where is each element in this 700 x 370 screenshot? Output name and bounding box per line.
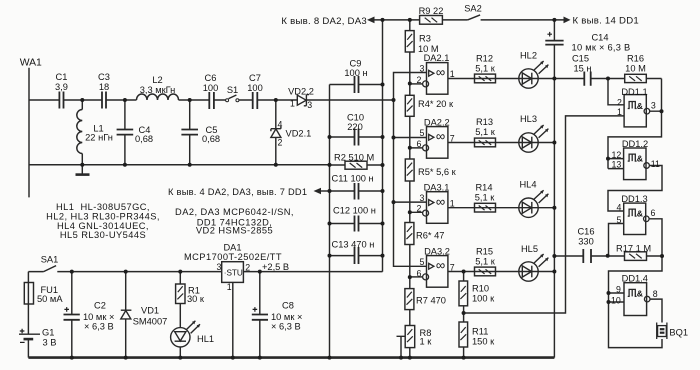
svg-text:8: 8: [653, 289, 658, 299]
svg-text:L2: L2: [152, 75, 162, 85]
svg-text:К выв. 8 DA2, DA3: К выв. 8 DA2, DA3: [281, 16, 367, 27]
svg-text:R4* 20 к: R4* 20 к: [418, 99, 454, 109]
svg-text:1 к: 1 к: [420, 336, 433, 346]
svg-text:18: 18: [99, 82, 109, 92]
svg-text:DD1.1: DD1.1: [621, 87, 647, 97]
svg-text:R7 470: R7 470: [416, 295, 446, 305]
svg-text:3: 3: [420, 193, 425, 203]
svg-text:R17 1 М: R17 1 М: [616, 244, 651, 254]
svg-text:DA2.1: DA2.1: [424, 53, 450, 63]
svg-text:100 н: 100 н: [344, 68, 367, 78]
svg-text:SA2: SA2: [464, 4, 482, 14]
svg-text:DA2.2: DA2.2: [424, 118, 450, 128]
svg-text:R9 22: R9 22: [419, 6, 444, 16]
svg-text:MCP1700T-2502E/TT: MCP1700T-2502E/TT: [184, 252, 282, 262]
svg-text:5: 5: [617, 215, 622, 225]
svg-text:C16: C16: [577, 227, 594, 237]
svg-text:R16: R16: [627, 54, 644, 64]
svg-text:15 н: 15 н: [573, 64, 591, 74]
svg-text:&: &: [637, 101, 643, 111]
svg-text:DD1.2: DD1.2: [622, 139, 648, 149]
svg-text:6: 6: [417, 139, 422, 149]
svg-text:BQ1: BQ1: [669, 328, 688, 338]
svg-text:DA3.1: DA3.1: [424, 182, 450, 192]
svg-text:9: 9: [616, 284, 621, 294]
svg-text:C3: C3: [98, 72, 110, 82]
svg-text:R14: R14: [475, 183, 492, 193]
svg-text:10 мк × 6,3 В: 10 мк × 6,3 В: [572, 43, 631, 53]
svg-text:SA1: SA1: [41, 254, 59, 264]
svg-text:C6: C6: [205, 73, 217, 83]
svg-text:0,68: 0,68: [202, 134, 220, 144]
svg-text:R12: R12: [476, 54, 493, 64]
svg-text:R5* 5,6 к: R5* 5,6 к: [418, 167, 457, 177]
svg-text:6: 6: [651, 208, 656, 218]
svg-text:&: &: [637, 153, 643, 163]
svg-text:R2 510 М: R2 510 М: [334, 152, 374, 162]
svg-text:C1: C1: [56, 72, 68, 82]
svg-text:3: 3: [420, 64, 425, 74]
svg-text:HL5: HL5: [521, 244, 538, 254]
svg-text:R11: R11: [472, 326, 488, 336]
svg-text:3 В: 3 В: [43, 337, 57, 347]
svg-text:DA1: DA1: [223, 243, 241, 253]
svg-text:2: 2: [245, 263, 250, 273]
svg-text:HL2: HL2: [520, 51, 537, 61]
svg-text:7: 7: [450, 262, 455, 272]
svg-text:6: 6: [417, 268, 422, 278]
svg-text:C8: C8: [282, 301, 294, 311]
svg-text:50 мА: 50 мА: [37, 294, 63, 304]
svg-text:3,3 мкГн: 3,3 мкГн: [140, 85, 176, 95]
svg-text:C11 100 н: C11 100 н: [332, 173, 374, 183]
svg-text:3,9: 3,9: [55, 82, 68, 92]
svg-text:К выв. 4 DA2, DA3, выв. 7 DD1: К выв. 4 DA2, DA3, выв. 7 DD1: [168, 187, 307, 197]
svg-text:R13: R13: [476, 117, 493, 127]
svg-text:2: 2: [417, 203, 422, 213]
svg-text:R15: R15: [476, 247, 493, 257]
svg-text:C15: C15: [572, 54, 589, 64]
svg-text:10: 10: [611, 295, 621, 305]
svg-text:VD2.1: VD2.1: [286, 129, 312, 139]
svg-text:10 мк ×: 10 мк ×: [83, 312, 114, 322]
svg-text:R6* 47: R6* 47: [416, 231, 444, 241]
svg-text:HL1: HL1: [197, 334, 214, 344]
svg-text:10 М: 10 М: [625, 64, 646, 74]
svg-text:3: 3: [307, 100, 312, 110]
svg-text:220: 220: [347, 122, 363, 132]
svg-text:3: 3: [217, 262, 222, 272]
svg-text:22 нГн: 22 нГн: [85, 133, 113, 143]
svg-text:HL1 HL-308U57GC,: HL1 HL-308U57GC,: [56, 202, 150, 212]
svg-text:∞: ∞: [436, 258, 445, 273]
svg-text:+2,5 В: +2,5 В: [262, 262, 289, 272]
svg-text:C2: C2: [94, 301, 106, 311]
svg-text:DA2, DA3 MCP6042-I/SN,: DA2, DA3 MCP6042-I/SN,: [175, 207, 294, 217]
svg-text:0,68: 0,68: [135, 134, 153, 144]
svg-text:× 6,3 В: × 6,3 В: [84, 321, 114, 331]
svg-text:4: 4: [617, 202, 622, 212]
svg-text:5,1 к: 5,1 к: [475, 64, 496, 74]
svg-text:2: 2: [417, 75, 422, 85]
svg-text:13: 13: [612, 160, 622, 170]
svg-text:VD2.2: VD2.2: [288, 87, 314, 97]
svg-text:100: 100: [247, 83, 263, 93]
svg-text:100 к: 100 к: [472, 293, 495, 303]
svg-text:G1: G1: [42, 327, 54, 337]
svg-text:C12 100 н: C12 100 н: [333, 206, 376, 216]
svg-text:1: 1: [450, 198, 455, 208]
svg-text:∞: ∞: [436, 65, 445, 80]
svg-text:∞: ∞: [436, 129, 445, 144]
svg-text:VD2 HSMS-2855: VD2 HSMS-2855: [196, 225, 273, 235]
svg-text:1: 1: [450, 69, 455, 79]
svg-text:DA3.2: DA3.2: [424, 246, 450, 256]
svg-text:WA1: WA1: [20, 58, 42, 69]
svg-text:HL3: HL3: [520, 114, 537, 124]
svg-text:100: 100: [203, 83, 219, 93]
svg-text:30 к: 30 к: [187, 294, 205, 304]
svg-text:∞: ∞: [436, 194, 445, 209]
svg-text:&: &: [637, 289, 643, 299]
svg-text:11: 11: [651, 159, 660, 169]
svg-text:10 мк ×: 10 мк ×: [271, 312, 302, 322]
svg-text:× 6,3 В: × 6,3 В: [271, 321, 301, 331]
svg-text:5,1 к: 5,1 к: [475, 257, 496, 267]
svg-text:5,1 к: 5,1 к: [475, 193, 496, 203]
svg-text:5: 5: [420, 257, 425, 267]
svg-text:HL4: HL4: [519, 180, 536, 190]
svg-text:R10: R10: [472, 284, 489, 294]
svg-text:C7: C7: [249, 73, 261, 83]
svg-text:4: 4: [278, 120, 283, 130]
svg-text:·STU: ·STU: [224, 268, 243, 277]
svg-text:5: 5: [420, 128, 425, 138]
svg-text:К выв. 14 DD1: К выв. 14 DD1: [573, 15, 639, 26]
svg-text:3: 3: [651, 100, 656, 110]
svg-text:C14: C14: [591, 32, 608, 42]
svg-text:DD1.4: DD1.4: [622, 274, 648, 284]
svg-text:12: 12: [612, 150, 622, 160]
svg-text:HL5 RL30-UY544S: HL5 RL30-UY544S: [60, 230, 146, 240]
svg-text:2: 2: [617, 98, 622, 108]
svg-text:1: 1: [290, 99, 295, 109]
svg-text:C10: C10: [347, 113, 364, 123]
svg-text:330: 330: [578, 236, 594, 246]
svg-text:7: 7: [450, 133, 455, 143]
svg-text:VD1: VD1: [141, 305, 159, 315]
svg-text:C13 470 н: C13 470 н: [332, 239, 375, 249]
svg-text:&: &: [637, 208, 643, 218]
svg-text:1: 1: [227, 282, 232, 292]
svg-text:DD1.3: DD1.3: [621, 194, 647, 204]
svg-text:R3: R3: [419, 34, 431, 44]
svg-text:C9: C9: [350, 59, 362, 69]
svg-text:5,1 к: 5,1 к: [475, 127, 496, 137]
svg-text:2: 2: [278, 138, 283, 148]
svg-text:150 к: 150 к: [472, 336, 495, 346]
svg-text:1: 1: [617, 107, 622, 117]
svg-text:SM4007: SM4007: [133, 316, 168, 326]
svg-text:S1: S1: [227, 85, 238, 95]
